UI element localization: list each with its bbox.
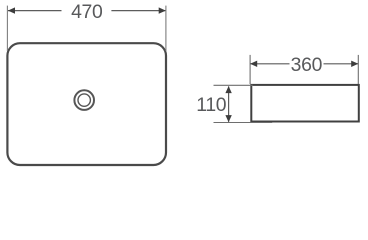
dimension line 110 (228, 86, 230, 121)
svg-text:360: 360 (291, 54, 323, 76)
extension line right of 360 (357, 55, 359, 84)
arrowhead 360 left (250, 61, 257, 67)
drain inner circle (78, 94, 90, 106)
extension line bottom of 110 (214, 122, 273, 124)
arrowhead 110 bottom (225, 115, 231, 122)
svg-text:470: 470 (71, 1, 103, 23)
svg-text:110: 110 (196, 94, 227, 116)
extension line right of 470 (165, 6, 167, 51)
dimension line 360 right segment (324, 63, 358, 65)
arrowhead 360 right (351, 61, 358, 67)
extension line left of 360 (249, 55, 251, 84)
arrowhead 470 right (159, 7, 166, 13)
extension line left of 470 (6, 6, 8, 51)
dimension line 360 left segment (251, 63, 290, 65)
basin side view outline (251, 85, 358, 122)
extension line top of 110 (214, 84, 254, 86)
arrowhead 110 top (225, 86, 231, 93)
drain outer circle (74, 90, 94, 110)
dimension line 470 right segment (111, 10, 165, 12)
arrowhead 470 left (8, 7, 15, 13)
dimension line 470 left segment (8, 10, 62, 12)
basin top view outline (7, 43, 166, 165)
